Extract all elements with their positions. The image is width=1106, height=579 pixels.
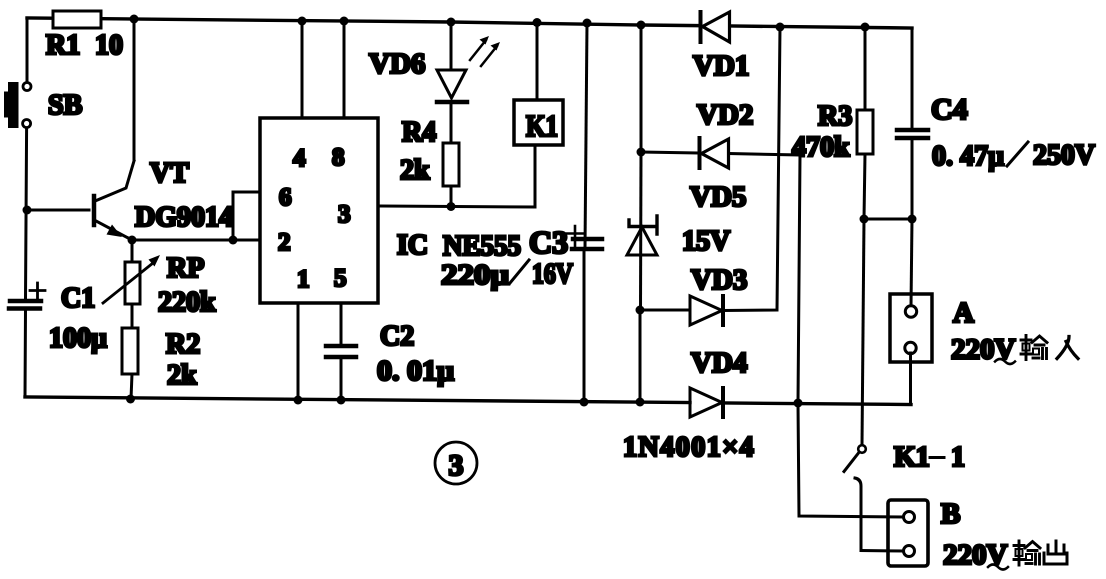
wire: C2 to bottom rail <box>340 359 343 400</box>
capacitor C3 plates <box>573 237 602 242</box>
svg-text:RP: RP <box>167 253 204 284</box>
svg-text:220k: 220k <box>158 287 216 318</box>
resistor R1 <box>53 11 101 28</box>
wire: zener branch to bottom rail <box>639 310 642 402</box>
wire: R2 to bottom rail <box>131 374 132 399</box>
wire: R3 top lead <box>864 27 867 110</box>
hanzi shu (output) <box>1014 541 1040 565</box>
socket B top circle <box>904 512 915 523</box>
wire: VD2 left lead <box>641 152 697 153</box>
svg-text:IC: IC <box>397 230 428 261</box>
svg-text:470k: 470k <box>792 132 850 163</box>
wire: rail junction to socket B top <box>798 403 904 517</box>
wire: left vertical SB to C1 <box>26 128 27 299</box>
svg-text:C2: C2 <box>380 321 414 352</box>
node: pin1 bottom <box>294 396 303 405</box>
svg-text:10: 10 <box>95 30 123 61</box>
svg-text:2k: 2k <box>400 155 430 186</box>
resistor R2 <box>122 328 138 374</box>
node: zener bottom <box>636 398 645 407</box>
diode VD3 triangle <box>690 296 722 325</box>
node: VD2 line to bottom rail <box>794 399 803 408</box>
svg-text:VD5: VD5 <box>690 181 746 213</box>
svg-text:0. 47μ: 0. 47μ <box>932 140 1005 172</box>
zener VD5 bar with hooks <box>629 216 657 234</box>
wire: pin8 riser <box>343 21 346 118</box>
node: R2 bottom <box>126 395 135 404</box>
svg-text:R3: R3 <box>818 101 852 132</box>
svg-text:100μ: 100μ <box>49 323 107 354</box>
svg-text:1: 1 <box>297 266 310 293</box>
svg-text:4: 4 <box>293 145 306 172</box>
socket B bottom circle <box>904 546 915 557</box>
svg-text:K1: K1 <box>526 108 558 143</box>
wire: VD3 right riser to top rail <box>723 27 780 311</box>
potentiometer RP arrow <box>103 263 153 303</box>
svg-text:2: 2 <box>278 229 291 256</box>
capacitor C3 polarity tick <box>567 226 584 246</box>
svg-text:3: 3 <box>338 201 351 228</box>
wire: pin3 to K1 bottom <box>378 206 535 207</box>
LED VD6 cathode bar <box>437 100 467 105</box>
transistor VT base bar <box>92 196 97 225</box>
svg-text:R1: R1 <box>46 30 80 61</box>
LED VD6 triangle <box>437 70 466 98</box>
wire: lower contact to socket B bottom <box>861 549 904 553</box>
socket A bottom circle <box>905 342 916 353</box>
svg-text:A: A <box>953 297 974 329</box>
node: pin4 riser top <box>298 17 307 26</box>
resistor R3 <box>857 110 873 154</box>
wire: base wire to VT <box>27 209 89 212</box>
diode VD2 bar <box>698 138 702 168</box>
pushbutton SB button bar <box>8 82 19 128</box>
socket A box <box>890 294 932 362</box>
hanzi ru (enter) <box>1057 337 1078 359</box>
diode VD1 bar <box>699 12 703 42</box>
node: C3 top <box>583 19 592 28</box>
svg-text:250V: 250V <box>1033 139 1095 171</box>
diode VD2 triangle <box>702 139 729 168</box>
wire: pin5 lead upper <box>340 303 343 344</box>
wire: left vertical from top rail to SB <box>26 18 29 82</box>
svg-text:15V: 15V <box>682 226 730 257</box>
wire: top rail left segment <box>27 18 697 26</box>
node: collector on top rail <box>130 15 139 24</box>
wire: C3 upper lead <box>585 23 587 248</box>
svg-text:0. 01μ: 0. 01μ <box>377 356 454 387</box>
wire: junction row <box>864 218 912 221</box>
svg-text:VT: VT <box>150 158 189 189</box>
svg-text:8: 8 <box>332 144 345 171</box>
wire: top rail right segment after VD1 <box>730 26 912 28</box>
wire: junction to socket A <box>911 219 912 307</box>
transistor VT collector <box>95 161 134 201</box>
svg-text:6: 6 <box>279 184 292 211</box>
pushbutton SB contact circle top <box>23 83 31 91</box>
node: pin6 bracket junction <box>229 236 238 245</box>
wire: socket A bottom to rail <box>909 353 912 405</box>
LED VD6 light arrows <box>470 40 486 60</box>
node: emitter junction <box>128 236 137 245</box>
svg-text:16V: 16V <box>532 258 573 290</box>
svg-text:VD2: VD2 <box>697 99 753 131</box>
node: K1 top <box>533 18 542 27</box>
node: VD3 junction <box>636 306 645 315</box>
wire: VD6 top lead <box>450 22 453 70</box>
svg-text:C3: C3 <box>529 224 568 260</box>
node: VD3 riser top <box>776 23 785 32</box>
IC U1 NE555 timer box <box>260 118 378 303</box>
wire: C1 to bottom rail <box>24 310 28 397</box>
wire: VD2 right to corner and down <box>729 154 800 404</box>
svg-text:K1: K1 <box>894 442 930 473</box>
node: VD6 top <box>447 18 456 27</box>
wire: K1 top lead <box>536 22 539 100</box>
wire: pin1 to bottom rail <box>297 303 300 400</box>
diode VD3 bar <box>721 296 725 325</box>
node: VD2 left junction <box>637 148 646 157</box>
capacitor C2 plates <box>326 344 356 349</box>
node: R3/C4 junction left <box>860 215 869 224</box>
wire: bottom rail left of VD4 <box>25 397 690 403</box>
wire: VD3 left lead <box>640 309 690 312</box>
svg-text:1N4001×4: 1N4001×4 <box>623 432 755 463</box>
wire: bottom rail right of VD4 <box>724 403 911 405</box>
svg-text:C1: C1 <box>61 283 95 314</box>
resistor R4 <box>443 143 459 186</box>
figure number 3 circle <box>435 442 477 484</box>
node: pin5 bottom <box>337 396 346 405</box>
diode VD1 triangle <box>703 12 730 42</box>
socket A top circle <box>905 306 916 317</box>
svg-text:220μ: 220μ <box>441 259 510 291</box>
svg-text:DG9014: DG9014 <box>135 202 233 233</box>
wire: C3 lower lead <box>583 249 586 402</box>
node: R3 top <box>861 23 870 32</box>
wire: R3 bottom lead <box>864 154 865 219</box>
svg-text:R4: R4 <box>402 117 436 148</box>
node: R3/C4 junction right <box>908 215 917 224</box>
potentiometer RP <box>125 262 140 304</box>
svg-text:C4: C4 <box>931 93 968 126</box>
svg-text:SB: SB <box>48 90 82 121</box>
wire: K1 bottom lead <box>534 145 537 207</box>
wire: C4 top lead from top rail corner <box>911 28 914 128</box>
node: pin8 riser top <box>340 17 349 26</box>
wire: pin4 riser <box>301 21 304 118</box>
wire: RP to R2 <box>131 304 134 328</box>
wire: emitter to IC pin2 <box>132 239 260 242</box>
switch K1-1 pivot circle <box>858 445 866 453</box>
svg-text:NE555: NE555 <box>443 231 521 262</box>
node: C3 bottom <box>580 398 589 407</box>
wire: VD6 to R4 <box>450 102 453 143</box>
switch K1-1 lower contact hook and lead <box>855 478 861 550</box>
svg-text:VD3: VD3 <box>691 264 747 296</box>
svg-text:1: 1 <box>951 442 965 473</box>
svg-text:3: 3 <box>449 449 464 482</box>
transistor VT emitter with arrow <box>96 221 132 240</box>
switch K1-1 arm <box>844 453 859 472</box>
wire: R4 bottom <box>450 186 453 207</box>
svg-text:R2: R2 <box>166 329 200 360</box>
svg-text:VD6: VD6 <box>369 48 425 80</box>
wire: RP top lead <box>131 240 134 262</box>
hanzi chu (out) <box>1044 541 1067 564</box>
diode VD4 bar <box>721 388 725 417</box>
capacitor C1 plus sign <box>30 283 45 299</box>
node: base junction <box>23 206 32 215</box>
node: R4 bottom junction <box>447 202 456 211</box>
capacitor C1 plates <box>10 299 41 304</box>
socket B box <box>888 500 928 566</box>
pushbutton SB contact circle bottom <box>23 120 31 128</box>
wire: C4 bottom lead <box>911 140 914 219</box>
svg-text:VD1: VD1 <box>693 50 749 82</box>
zener VD5 triangle <box>627 227 657 255</box>
hanzi shu (input) <box>1021 336 1047 360</box>
capacitor C4 plates <box>897 128 928 133</box>
diode VD4 triangle <box>690 388 722 417</box>
wire: branch down to VD2 <box>640 25 643 152</box>
relay K1 box <box>514 100 563 145</box>
wire: bracket to pin 6 <box>233 192 260 240</box>
svg-text:2k: 2k <box>167 360 197 391</box>
svg-text:5: 5 <box>334 265 347 292</box>
wire: R3 branch down to switch <box>862 219 864 445</box>
wire: collector riser to top rail <box>133 19 136 160</box>
wire: zener branch down <box>639 152 643 311</box>
svg-text:VD4: VD4 <box>691 347 747 379</box>
svg-text:B: B <box>941 498 960 530</box>
node: VD1/VD2 branch top <box>637 21 646 30</box>
